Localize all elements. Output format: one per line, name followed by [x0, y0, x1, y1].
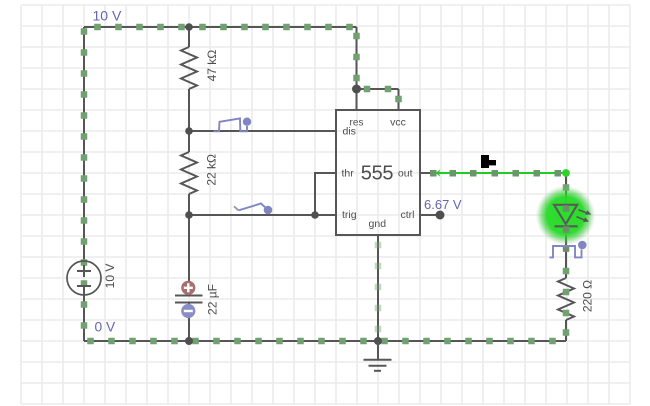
wire bottom rail 0V	[84, 340, 566, 342]
wire led branch lower	[565, 320, 567, 341]
node top-189	[185, 23, 193, 31]
probe P3 on led branch	[550, 241, 587, 258]
wire out stub	[420, 172, 433, 174]
wire cap top lead	[188, 215, 190, 295]
wire dis	[189, 130, 336, 132]
LED arrows	[577, 210, 592, 222]
probe P1 on dis	[214, 118, 252, 132]
node ctrl terminal	[436, 211, 445, 220]
ground symbol	[364, 341, 392, 371]
svg-text:dis: dis	[343, 126, 356, 138]
node gnd junction	[374, 337, 382, 345]
current squares over LED	[563, 205, 570, 252]
op-amp U1 555 box	[336, 110, 420, 235]
svg-text:vcc: vcc	[390, 117, 406, 129]
svg-text:trig: trig	[342, 209, 357, 221]
probe P2 on trig	[234, 204, 272, 215]
node out green	[562, 169, 570, 177]
wire thr branch	[315, 173, 336, 215]
svg-text:6.67 V: 6.67 V	[424, 197, 462, 212]
wire ctrl stub	[420, 214, 436, 216]
wire left rail lower	[83, 286, 85, 341]
node trig junction	[185, 211, 193, 219]
wire left rail	[83, 27, 85, 271]
wire res-vcc horizontal	[357, 88, 399, 90]
svg-text:22 kΩ: 22 kΩ	[205, 154, 219, 186]
voltage source V1	[67, 261, 101, 295]
current arrow on out wire	[436, 169, 441, 177]
resistor R2 22k zigzag	[181, 152, 197, 194]
resistor R3 220 zigzag	[558, 278, 574, 320]
node dis junction	[185, 127, 193, 135]
node cap-bottom junction	[185, 337, 193, 345]
wire 47k top lead	[188, 27, 190, 47]
wires layer	[84, 27, 566, 341]
wire res/vcc branch vertical	[356, 27, 358, 110]
svg-text:10 V: 10 V	[103, 264, 117, 289]
node thr/trig junction	[311, 211, 319, 219]
mouse cursor	[481, 155, 496, 168]
current squares green	[81, 24, 570, 345]
wire out green	[433, 172, 566, 174]
svg-text:22 µF: 22 µF	[206, 284, 220, 315]
wire 22k bottom lead	[188, 194, 190, 215]
resistor R1 47k zigzag	[181, 47, 197, 89]
node res/vcc junction	[352, 85, 361, 94]
wire led mid	[565, 226, 567, 278]
LED D1 glow	[536, 186, 596, 246]
wire led branch upper	[565, 173, 567, 205]
wire top rail 10V	[84, 26, 357, 28]
squares on green wire	[430, 170, 561, 177]
junction node dots	[185, 23, 445, 345]
svg-text:gnd: gnd	[369, 218, 387, 230]
wire vcc drop	[398, 89, 400, 110]
capacitor C1 22uF	[175, 281, 203, 318]
svg-text:out: out	[398, 168, 413, 180]
svg-text:10 V: 10 V	[93, 8, 122, 24]
wire 47k bottom lead	[188, 89, 190, 131]
svg-text:ctrl: ctrl	[401, 209, 415, 221]
wire 22k top lead	[188, 131, 190, 152]
wire gnd drop	[377, 236, 379, 341]
wire cap bottom lead	[188, 304, 190, 342]
svg-text:220 Ω: 220 Ω	[581, 280, 595, 312]
svg-text:thr: thr	[342, 168, 355, 180]
LED D1 symbol	[554, 205, 578, 227]
svg-text:0 V: 0 V	[95, 320, 117, 335]
wire trig	[189, 214, 336, 216]
svg-text:47 kΩ: 47 kΩ	[205, 50, 219, 82]
svg-text:555: 555	[361, 163, 394, 185]
